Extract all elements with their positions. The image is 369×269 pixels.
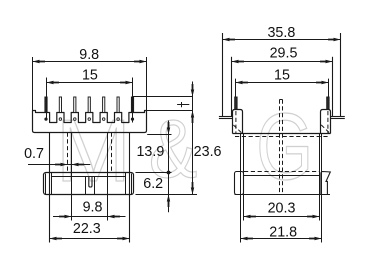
svg-text:23.6: 23.6 bbox=[194, 144, 222, 160]
svg-text:20.3: 20.3 bbox=[268, 200, 296, 216]
svg-text:9.8: 9.8 bbox=[83, 199, 103, 215]
svg-text:G: G bbox=[256, 93, 313, 199]
svg-text:0.7: 0.7 bbox=[24, 146, 44, 162]
svg-text:22.3: 22.3 bbox=[73, 221, 101, 237]
svg-text:9.8: 9.8 bbox=[79, 47, 99, 63]
svg-text:15: 15 bbox=[82, 68, 98, 84]
svg-text:29.5: 29.5 bbox=[270, 46, 298, 62]
svg-text:15: 15 bbox=[274, 67, 290, 83]
svg-text:35.8: 35.8 bbox=[267, 25, 295, 41]
svg-text:21.8: 21.8 bbox=[269, 225, 297, 241]
svg-text:6.2: 6.2 bbox=[143, 176, 163, 192]
svg-text:13.9: 13.9 bbox=[136, 144, 164, 160]
